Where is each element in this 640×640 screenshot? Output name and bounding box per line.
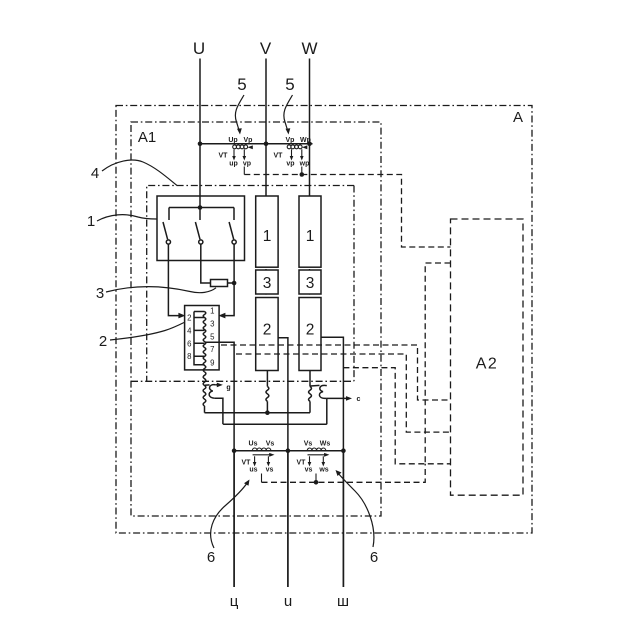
svg-text:V: V xyxy=(260,39,272,58)
svg-text:Wp: Wp xyxy=(300,137,311,144)
svg-text:7: 7 xyxy=(210,345,214,354)
svg-text:2: 2 xyxy=(306,322,315,339)
svg-text:3: 3 xyxy=(210,320,214,329)
svg-text:9: 9 xyxy=(210,358,214,367)
svg-text:Vs: Vs xyxy=(266,441,275,448)
svg-text:6: 6 xyxy=(207,549,215,566)
svg-text:VT: VT xyxy=(242,460,252,467)
svg-text:ш: ш xyxy=(337,593,349,610)
svg-text:Ws: Ws xyxy=(320,441,331,448)
svg-text:ws: ws xyxy=(318,467,328,474)
svg-text:A: A xyxy=(513,109,523,126)
svg-text:4: 4 xyxy=(91,165,99,182)
svg-text:VT: VT xyxy=(274,153,284,160)
svg-text:3: 3 xyxy=(263,275,272,292)
svg-text:A2: A2 xyxy=(476,356,499,373)
svg-text:vp: vp xyxy=(243,161,251,168)
svg-text:6: 6 xyxy=(370,549,378,566)
svg-text:up: up xyxy=(229,161,238,168)
svg-text:Vp: Vp xyxy=(244,137,253,144)
svg-text:6: 6 xyxy=(187,339,191,348)
svg-text:8: 8 xyxy=(187,352,191,361)
svg-text:vs: vs xyxy=(266,467,274,474)
svg-text:us: us xyxy=(249,467,257,474)
svg-text:vs: vs xyxy=(305,467,313,474)
svg-text:VT: VT xyxy=(297,460,307,467)
svg-text:Vp: Vp xyxy=(286,137,295,144)
svg-text:5: 5 xyxy=(210,332,215,341)
svg-text:VT: VT xyxy=(219,153,229,160)
svg-text:2: 2 xyxy=(187,314,191,323)
svg-text:3: 3 xyxy=(306,275,315,292)
svg-text:wp: wp xyxy=(299,161,310,168)
svg-text:1: 1 xyxy=(87,213,95,230)
svg-text:4: 4 xyxy=(187,326,192,335)
svg-text:1: 1 xyxy=(210,307,214,316)
svg-text:Up: Up xyxy=(228,137,237,144)
svg-text:Vs: Vs xyxy=(304,441,313,448)
svg-text:ц: ц xyxy=(230,593,239,610)
svg-text:W: W xyxy=(301,39,317,58)
svg-text:1: 1 xyxy=(263,228,272,245)
svg-text:g: g xyxy=(226,385,230,392)
svg-text:U: U xyxy=(193,39,205,58)
svg-text:A1: A1 xyxy=(138,129,156,146)
svg-text:1: 1 xyxy=(306,228,315,245)
svg-text:Us: Us xyxy=(249,441,258,448)
svg-text:5: 5 xyxy=(237,75,246,94)
svg-text:vp: vp xyxy=(286,161,294,168)
svg-text:2: 2 xyxy=(263,322,272,339)
svg-text:5: 5 xyxy=(285,75,294,94)
svg-text:c: c xyxy=(357,396,361,403)
svg-text:u: u xyxy=(284,593,292,610)
svg-text:2: 2 xyxy=(99,333,107,350)
svg-text:3: 3 xyxy=(96,285,104,302)
